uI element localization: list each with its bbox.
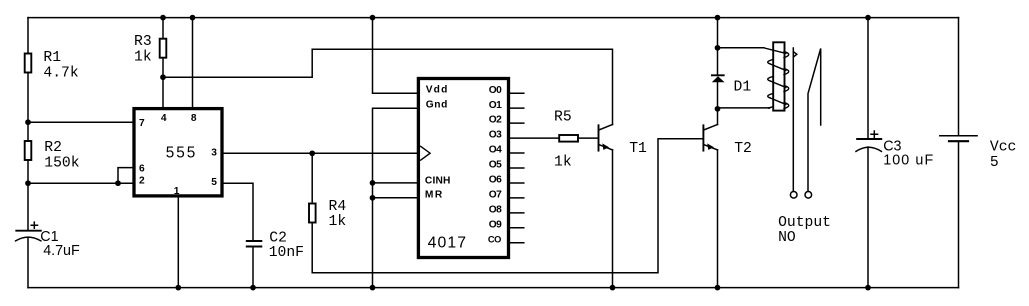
svg-text:O6: O6 — [489, 175, 502, 186]
svg-text:6: 6 — [139, 164, 145, 175]
svg-text:8: 8 — [191, 113, 197, 124]
svg-text:R5: R5 — [554, 110, 572, 126]
svg-text:3: 3 — [211, 147, 217, 158]
svg-text:T2: T2 — [734, 141, 752, 157]
svg-text:R2: R2 — [44, 140, 62, 156]
svg-text:O5: O5 — [489, 160, 502, 171]
svg-text:4.7k: 4.7k — [43, 65, 78, 81]
svg-text:O2: O2 — [489, 115, 502, 126]
svg-text:Vdd: Vdd — [426, 85, 448, 96]
svg-text:R4: R4 — [329, 199, 347, 215]
svg-text:O9: O9 — [489, 219, 502, 230]
svg-text:R1: R1 — [43, 50, 61, 66]
svg-text:4: 4 — [161, 113, 167, 124]
svg-text:O0: O0 — [489, 85, 502, 96]
svg-text:R3: R3 — [134, 34, 152, 50]
svg-text:C2: C2 — [269, 230, 287, 246]
svg-text:O3: O3 — [489, 130, 502, 141]
svg-text:1k: 1k — [329, 214, 347, 230]
svg-text:555: 555 — [166, 144, 196, 161]
svg-text:O4: O4 — [489, 145, 502, 156]
svg-text:2: 2 — [139, 176, 145, 187]
svg-text:CO: CO — [488, 234, 502, 244]
svg-text:1k: 1k — [134, 49, 152, 65]
svg-text:10nF: 10nF — [269, 245, 304, 261]
svg-text:100 uF: 100 uF — [883, 152, 933, 168]
svg-text:1: 1 — [174, 186, 180, 197]
svg-text:Vcc: Vcc — [990, 140, 1016, 156]
svg-text:Gnd: Gnd — [426, 100, 448, 111]
svg-text:4017: 4017 — [428, 235, 467, 252]
svg-text:T1: T1 — [629, 141, 647, 157]
svg-text:NO: NO — [778, 230, 796, 246]
svg-text:7: 7 — [139, 118, 145, 129]
svg-text:5: 5 — [990, 155, 999, 171]
svg-text:150k: 150k — [44, 155, 79, 171]
svg-text:MR: MR — [425, 190, 443, 201]
svg-text:CINH: CINH — [425, 175, 451, 186]
svg-text:Output: Output — [778, 215, 831, 231]
svg-text:O8: O8 — [489, 204, 502, 215]
svg-text:5: 5 — [211, 177, 217, 188]
svg-text:1k: 1k — [554, 154, 572, 170]
svg-text:O1: O1 — [489, 100, 502, 111]
svg-text:4.7uF: 4.7uF — [43, 243, 80, 259]
svg-text:O7: O7 — [489, 189, 502, 200]
svg-text:D1: D1 — [734, 80, 752, 96]
